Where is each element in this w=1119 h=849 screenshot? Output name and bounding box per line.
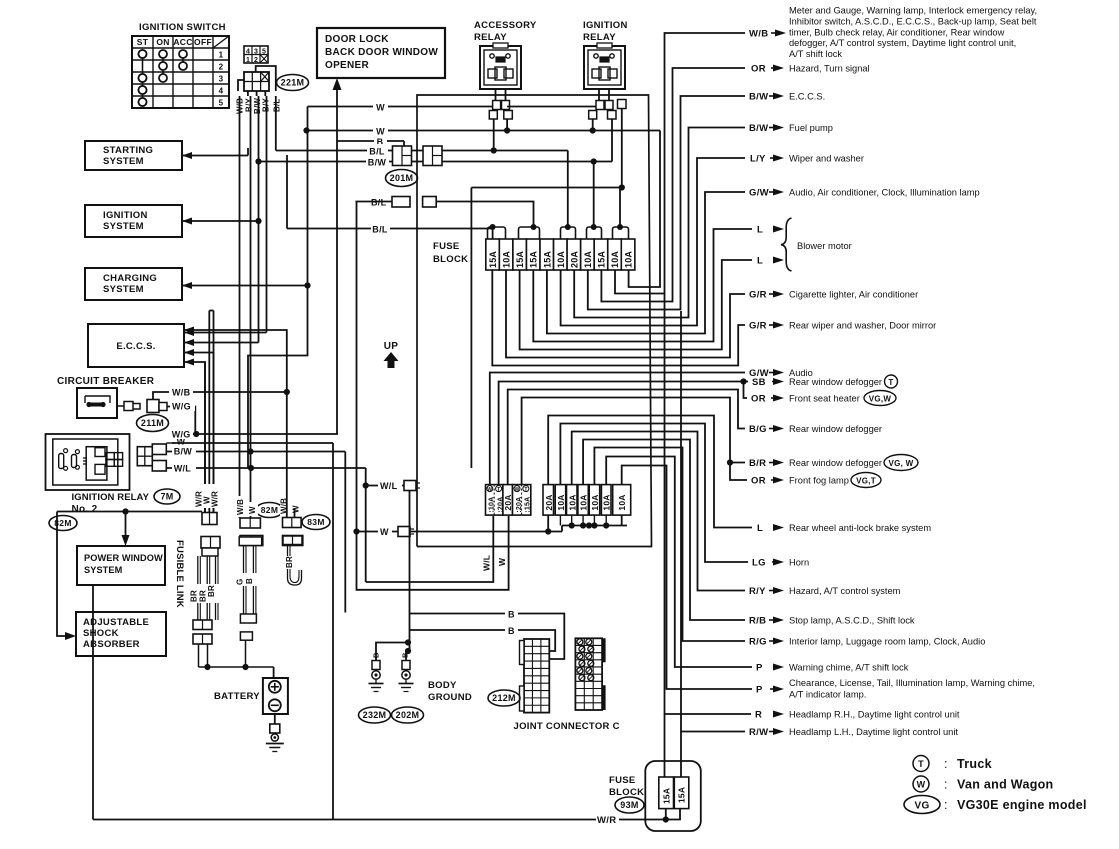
wire fuse9 to OR label xyxy=(601,68,745,302)
wire W/B main vertical xyxy=(239,96,241,518)
svg-text:OFF: OFF xyxy=(194,37,212,47)
svg-text:A/T shift lock: A/T shift lock xyxy=(789,49,842,59)
svg-text:15A: 15A xyxy=(677,787,687,803)
svg-text:15A: 15A xyxy=(529,251,539,268)
wire fuse4 to L blower1 label xyxy=(533,229,752,342)
svg-text:SHOCK: SHOCK xyxy=(83,628,119,639)
svg-text:RELAY: RELAY xyxy=(474,32,507,43)
83M cluster connector xyxy=(283,518,302,528)
wire W/G from breaker xyxy=(167,407,195,435)
fusible link BR hairpin xyxy=(283,536,302,545)
svg-text:SB: SB xyxy=(752,377,766,388)
wire B/W vertical xyxy=(258,96,260,343)
svg-text:W/R: W/R xyxy=(597,815,616,826)
svg-text:Headlamp L.H., Daytime light c: Headlamp L.H., Daytime light control uni… xyxy=(789,727,958,737)
wire row2 20A-2 to L rear wheel label xyxy=(548,416,752,528)
svg-text:15A: 15A xyxy=(488,251,498,268)
svg-text:Rear wiper and washer, Door mi: Rear wiper and washer, Door mirror xyxy=(789,321,936,331)
svg-text:201M: 201M xyxy=(390,173,414,183)
wire W/R vertical upper section xyxy=(213,311,215,353)
svg-text:5: 5 xyxy=(262,49,266,56)
fuse block outer boundary box xyxy=(417,95,652,547)
svg-text:4: 4 xyxy=(246,49,250,56)
svg-text:VG,W: VG,W xyxy=(869,395,892,404)
svg-text:20A: 20A xyxy=(503,494,513,510)
wire W 83M short xyxy=(294,508,296,518)
labels W/B W 83M xyxy=(280,494,291,516)
svg-text:R/W: R/W xyxy=(749,727,768,738)
wire W lower rail xyxy=(306,130,661,132)
wire drop to adjustable shock absorber xyxy=(57,512,71,637)
joint connector C grid 1 xyxy=(524,639,549,713)
svg-text:GROUND: GROUND xyxy=(428,692,472,703)
battery bus wire xyxy=(199,666,274,668)
fuse row2 bottom bus xyxy=(562,525,627,527)
svg-text:82M: 82M xyxy=(261,505,278,515)
svg-text:ON: ON xyxy=(156,37,169,47)
legend van and wagon xyxy=(913,776,929,792)
svg-text:10A: 10A xyxy=(579,494,589,510)
wire fuse7 to B/W fuel pump label xyxy=(574,128,745,318)
svg-text:L: L xyxy=(757,225,763,236)
svg-text:W/R: W/R xyxy=(211,491,220,507)
svg-text:POWER WINDOW: POWER WINDOW xyxy=(84,553,163,563)
wire eccs arrow 3 xyxy=(184,353,214,513)
door lock back door window opener box xyxy=(317,28,445,78)
ground riser wires xyxy=(376,643,408,661)
wire horizontal relay no2 bottom xyxy=(57,511,202,513)
svg-text:FUSE: FUSE xyxy=(433,241,460,252)
svg-text:W/B: W/B xyxy=(749,29,768,40)
wire power window to W/R xyxy=(92,585,94,820)
W connector small box xyxy=(357,531,399,533)
svg-text:UP: UP xyxy=(384,341,399,352)
wire fuse2 to G/R cigarette label xyxy=(506,270,745,358)
83M lower connector xyxy=(283,536,303,546)
232M ellipse xyxy=(359,707,391,723)
wire B/L 201M left segment xyxy=(356,201,393,203)
svg-text::: : xyxy=(944,778,948,792)
power window system box xyxy=(77,546,165,585)
wire eccs arrow 1 xyxy=(184,332,267,334)
junction dot W rails xyxy=(303,127,309,133)
wire R from 93M xyxy=(664,714,666,777)
svg-text:212M: 212M xyxy=(492,693,516,703)
svg-text:W: W xyxy=(376,103,385,113)
joint connector C grid 2 xyxy=(575,638,602,710)
svg-text:DOOR LOCK: DOOR LOCK xyxy=(325,34,389,45)
circuit breaker box xyxy=(77,388,117,418)
svg-text:B/W: B/W xyxy=(749,92,768,103)
fusible link bundle 2 xyxy=(239,537,262,546)
svg-text:BACK DOOR WINDOW: BACK DOOR WINDOW xyxy=(325,47,438,58)
211M ellipse xyxy=(137,415,169,432)
stem cap8 xyxy=(593,162,595,228)
svg-text:Front fog lamp: Front fog lamp xyxy=(789,476,849,486)
starting system box xyxy=(85,141,182,170)
201M ellipse xyxy=(386,170,418,187)
svg-text:Wiper and washer: Wiper and washer xyxy=(789,154,864,164)
wire fuse1 to G/R rear wiper label xyxy=(492,270,745,366)
svg-text:CIRCUIT BREAKER: CIRCUIT BREAKER xyxy=(57,376,155,387)
wire from W/L box down to grounds xyxy=(409,491,411,652)
svg-text:OR: OR xyxy=(751,394,766,405)
wire B/Y vertical 2 xyxy=(266,96,268,333)
circuit breaker element xyxy=(85,396,110,403)
wire W/L riser drop to connector xyxy=(365,468,367,582)
svg-text:5: 5 xyxy=(219,99,224,108)
wire row2 10A-5 to P warning chime label xyxy=(606,457,752,668)
svg-text:IGNITION RELAY: IGNITION RELAY xyxy=(72,492,150,503)
svg-text:20A: 20A xyxy=(544,494,554,510)
svg-text:A/T indicator lamp.: A/T indicator lamp. xyxy=(789,690,866,700)
wire B/L lowest to fuse cap 1-2 xyxy=(287,228,493,230)
212M ellipse xyxy=(488,690,520,706)
labels W/B W cluster2 xyxy=(236,496,247,517)
svg-text:JOINT CONNECTOR C: JOINT CONNECTOR C xyxy=(514,721,620,732)
accessory relay pin drop to B/L xyxy=(493,119,495,151)
svg-text:BODY: BODY xyxy=(428,680,457,691)
svg-text:VG,T: VG,T xyxy=(856,477,876,486)
svg-text:Fuel pump: Fuel pump xyxy=(789,123,833,133)
svg-text:82M: 82M xyxy=(54,518,71,528)
wire row2 10A-1 to LG label xyxy=(560,424,748,563)
wire fuse3 to L blower2 label xyxy=(520,260,752,350)
svg-text:L: L xyxy=(757,256,763,267)
svg-text:W: W xyxy=(380,527,389,537)
fuse block row 1 fuses xyxy=(486,239,500,270)
wire W/G lower xyxy=(172,433,338,435)
svg-text:10A: 10A xyxy=(567,494,577,510)
switch contacts ST column xyxy=(139,50,147,58)
svg-text:Hazard, A/T control system: Hazard, A/T control system xyxy=(789,586,901,596)
wire B/L through fuse box to fuse cap 6-7 xyxy=(442,150,568,152)
svg-text:B/R: B/R xyxy=(749,458,766,469)
svg-text:10A: 10A xyxy=(583,251,593,268)
svg-text:BR: BR xyxy=(285,556,294,568)
svg-text:BLOCK: BLOCK xyxy=(433,254,468,265)
connector bottom pin stubs xyxy=(247,91,249,96)
wire B into connector xyxy=(403,141,405,146)
svg-text:OPENER: OPENER xyxy=(325,60,370,71)
svg-text:P: P xyxy=(756,663,763,674)
ignition switch table xyxy=(132,36,229,108)
svg-text:Blower motor: Blower motor xyxy=(797,241,852,251)
svg-text:15A: 15A xyxy=(662,788,672,804)
svg-text:ABSORBER: ABSORBER xyxy=(83,639,140,650)
svg-text:W: W xyxy=(515,487,520,493)
wire B/Y vertical 1 xyxy=(250,96,252,518)
table diagonal xyxy=(213,36,229,48)
svg-text:No. 2: No. 2 xyxy=(72,504,98,515)
wire drop to power window xyxy=(125,512,127,542)
svg-text:15A: 15A xyxy=(542,251,552,268)
7M ellipse xyxy=(154,489,180,504)
accessory relay pin connectors xyxy=(493,101,501,110)
wire B/L to fuse cap 3-4 xyxy=(436,202,533,228)
svg-text:B/L: B/L xyxy=(273,99,282,113)
battery box xyxy=(263,678,288,714)
connector pair B/L 201M xyxy=(392,197,410,208)
wire B/W from cluster xyxy=(166,451,345,453)
svg-text:ACCESSORY: ACCESSORY xyxy=(474,20,537,31)
svg-text:Stop lamp, A.S.C.D., Shift loc: Stop lamp, A.S.C.D., Shift lock xyxy=(789,616,915,626)
svg-text:B/G: B/G xyxy=(749,424,767,435)
svg-text:W/L: W/L xyxy=(380,481,398,491)
stem cap 10-11 xyxy=(619,188,621,228)
svg-text::: : xyxy=(944,757,948,771)
wire W drop from B/L via W connector xyxy=(357,202,509,590)
svg-text:SYSTEM: SYSTEM xyxy=(103,156,144,167)
svg-text:T: T xyxy=(888,378,893,387)
svg-text:W/G: W/G xyxy=(172,430,191,440)
battery ground wire xyxy=(274,714,276,724)
svg-text:93M: 93M xyxy=(620,800,638,810)
svg-text:SYSTEM: SYSTEM xyxy=(84,565,123,575)
wire B/L riser at left xyxy=(286,155,288,229)
junction dot B/W stem fuse cap 8 xyxy=(591,158,597,164)
93M fuse bottom connections xyxy=(665,809,667,820)
svg-text:15A: 15A xyxy=(515,251,525,268)
ignition relay pin stubs xyxy=(598,89,600,101)
wire fuse6 to L/Y label xyxy=(561,158,745,326)
svg-text:B/W: B/W xyxy=(174,447,193,457)
svg-text:Van and Wagon: Van and Wagon xyxy=(957,778,1054,792)
wire row2 10A-2 to R/Y label xyxy=(572,432,745,591)
svg-text:E.C.C.S.: E.C.C.S. xyxy=(789,92,825,102)
stem cap 1-2 xyxy=(492,229,494,240)
svg-text:211M: 211M xyxy=(141,418,164,428)
wire fuse10 to W/B label xyxy=(615,33,745,294)
svg-text:ACC: ACC xyxy=(173,37,192,47)
svg-text:Rear window defogger: Rear window defogger xyxy=(789,458,882,468)
ignition system box xyxy=(85,205,182,237)
wire B riser into door lock opener with arrow xyxy=(336,82,338,141)
wire R/W vertical continuation xyxy=(681,311,745,732)
stem to cap 6-7 xyxy=(567,151,569,228)
82M cluster 2 connector xyxy=(240,518,260,528)
svg-text:B/L: B/L xyxy=(371,198,387,208)
legend truck xyxy=(913,756,929,772)
svg-text:STARTING: STARTING xyxy=(103,145,153,156)
svg-text:IGNITION: IGNITION xyxy=(103,210,148,221)
svg-text:W/G: W/G xyxy=(172,402,191,412)
svg-text::20A: :20A xyxy=(516,497,523,513)
wire W/B 83M riser to eccs xyxy=(184,330,287,518)
svg-text:timer, Bulb check relay, Air c: timer, Bulb check relay, Air conditioner… xyxy=(789,27,1005,37)
switch contacts ACC column xyxy=(182,54,184,66)
wire B lower to joint connector xyxy=(410,630,556,651)
svg-text:10A: 10A xyxy=(590,494,600,510)
wire fuse11 to W rail xyxy=(629,131,660,288)
grid 2 black edge bands xyxy=(602,638,606,662)
svg-text:G/R: G/R xyxy=(749,321,767,332)
battery ground symbol xyxy=(266,743,284,745)
fuse row2 20A drop xyxy=(547,515,549,531)
ignition relay pin drop to W rail xyxy=(592,119,594,131)
wire row2 10A-4 to R/G label xyxy=(594,448,745,642)
bundle2 lower connectors xyxy=(240,614,256,623)
charging system box xyxy=(85,268,182,300)
svg-text:10A: 10A xyxy=(502,251,512,268)
wire fuse8 to B/W eccs label xyxy=(588,96,745,310)
svg-text:VG: VG xyxy=(914,801,929,812)
svg-text:Truck: Truck xyxy=(957,757,992,771)
svg-text:T: T xyxy=(524,487,527,493)
svg-text:W/B: W/B xyxy=(236,499,245,515)
ignition relay outer pin drop xyxy=(621,109,623,188)
battery feed wires xyxy=(198,644,200,667)
ignition switch connector 221M xyxy=(244,72,269,91)
svg-text:10A: 10A xyxy=(617,494,627,510)
svg-text:10A: 10A xyxy=(624,251,634,268)
svg-text:B/W: B/W xyxy=(368,158,387,168)
svg-text:ST: ST xyxy=(137,37,149,47)
svg-text:L: L xyxy=(757,523,763,534)
fuse row1 connector caps xyxy=(488,227,506,239)
svg-text:Interior lamp, Luggage room la: Interior lamp, Luggage room lamp, Clock,… xyxy=(789,637,985,647)
wire W/L from cluster xyxy=(166,467,365,469)
wire row2 fuse3 to B/R label xyxy=(522,398,745,485)
svg-text:7M: 7M xyxy=(160,492,173,502)
wire W/G riser to B wire xyxy=(336,141,338,434)
wire W riser from door-lock junction xyxy=(248,107,308,469)
wire W label xyxy=(166,442,174,444)
wire row2 bus from W connector xyxy=(410,531,562,533)
switch contacts ON column xyxy=(162,54,164,78)
fusible link bundle 1 xyxy=(202,548,218,556)
svg-text:Rear window defogger: Rear window defogger xyxy=(789,424,882,434)
202M ellipse xyxy=(392,707,424,723)
blower motor brace xyxy=(781,218,792,271)
wire into starting system xyxy=(182,155,248,157)
wire into ignition system xyxy=(182,220,259,222)
svg-text:10A: 10A xyxy=(610,251,620,268)
wire B/W riser to ignition relay pin xyxy=(611,119,613,162)
connector pin-number box 4 3 5 / 1 2 X xyxy=(244,46,268,63)
svg-text:LG: LG xyxy=(752,558,766,569)
svg-text:232M: 232M xyxy=(363,710,387,720)
wire W rail stub label gap cover xyxy=(373,100,388,112)
wire B/L vertical from connector xyxy=(275,96,277,151)
svg-text:W: W xyxy=(292,505,301,513)
svg-text:SYSTEM: SYSTEM xyxy=(103,221,144,232)
wire B/L upper xyxy=(276,150,423,152)
svg-text:R/Y: R/Y xyxy=(749,586,766,597)
221M ellipse xyxy=(277,75,309,91)
svg-text:Headlamp R.H., Daytime light c: Headlamp R.H., Daytime light control uni… xyxy=(789,710,960,720)
svg-text:T: T xyxy=(918,759,924,769)
ignition relay no2 outer box xyxy=(46,434,130,490)
wire R vertical continuation xyxy=(665,294,752,715)
wire row2 10A-3 to R/B label xyxy=(583,440,745,621)
82M cluster 1 connector xyxy=(202,513,217,525)
svg-text:Chearance, License, Tail, Illu: Chearance, License, Tail, Illumination l… xyxy=(789,678,1035,688)
93M fuse left 15A xyxy=(659,777,674,809)
wire W drop from cluster xyxy=(332,443,334,820)
svg-text:OR: OR xyxy=(751,476,766,487)
svg-text::: : xyxy=(944,798,948,812)
wire row2 20A to B/G label xyxy=(508,390,745,485)
wire W middle vertical xyxy=(208,311,210,513)
svg-text:221M: 221M xyxy=(281,78,305,88)
svg-text:Rear window defogger: Rear window defogger xyxy=(789,377,882,387)
riser W/L left xyxy=(470,188,472,469)
svg-text:Warning chime, A/T shift lock: Warning chime, A/T shift lock xyxy=(789,663,909,673)
connector pair B/L B/W left of fuse block xyxy=(393,146,412,166)
svg-text:3: 3 xyxy=(219,75,224,84)
relay no2 internals xyxy=(59,454,64,469)
relay no2 connector cluster xyxy=(137,447,152,466)
svg-text:FUSE: FUSE xyxy=(609,775,636,786)
svg-text:2: 2 xyxy=(219,63,224,72)
svg-text:4: 4 xyxy=(219,87,224,96)
svg-text:R/B: R/B xyxy=(749,616,766,627)
svg-text:1: 1 xyxy=(246,57,250,64)
svg-text:Hazard, Turn signal: Hazard, Turn signal xyxy=(789,64,870,74)
svg-text:CHARGING: CHARGING xyxy=(103,273,157,284)
svg-text:OR: OR xyxy=(751,64,766,75)
svg-text:202M: 202M xyxy=(396,710,420,720)
fusible link cluster 1 lower connector xyxy=(201,537,220,549)
grid 2 terminal circles xyxy=(577,639,583,645)
svg-text:VG30E engine model: VG30E engine model xyxy=(957,798,1087,812)
93M fuse right 15A xyxy=(674,777,689,809)
svg-text:ADJUSTABLE: ADJUSTABLE xyxy=(83,617,149,628)
ignition relay pin connectors xyxy=(596,101,604,110)
svg-text:G/W: G/W xyxy=(749,188,769,199)
accessory relay pin stubs xyxy=(495,89,497,101)
junction dot B/W at connector riser xyxy=(255,158,261,164)
svg-text:10A: 10A xyxy=(556,251,566,268)
wire from ign relay pin to W/L riser xyxy=(471,187,621,189)
svg-text:10A: 10A xyxy=(556,494,566,510)
wire B/W upper xyxy=(257,161,423,163)
svg-text:Horn: Horn xyxy=(789,558,809,568)
wire row2 10A-6 to P clearance label xyxy=(622,466,752,690)
svg-text:FUSIBLE LINK: FUSIBLE LINK xyxy=(174,540,185,608)
connector top stub to B/L xyxy=(256,66,276,91)
accessory relay pin drop to W rail xyxy=(506,119,508,131)
svg-text:W: W xyxy=(917,780,926,790)
wire B/W drop to B wire junction xyxy=(344,452,346,613)
svg-text:IGNITION: IGNITION xyxy=(583,20,628,31)
wire B/R branch to OR front fog lamp xyxy=(730,463,747,481)
svg-text:P: P xyxy=(756,685,763,696)
svg-text:2: 2 xyxy=(254,57,258,64)
svg-text:defogger, A/T control system,: defogger, A/T control system, Daytime li… xyxy=(789,38,1016,48)
labels W/R W W/R xyxy=(198,484,220,508)
svg-text:10A: 10A xyxy=(602,494,612,510)
up arrow symbol xyxy=(384,352,399,368)
accessory relay xyxy=(480,46,521,89)
fuse block 93M box xyxy=(645,761,701,831)
svg-text:IGNITION SWITCH: IGNITION SWITCH xyxy=(139,22,226,33)
bridge at top of W/R pair xyxy=(209,310,213,312)
adjustable shock absorber box xyxy=(76,612,166,656)
ignition relay xyxy=(584,46,625,89)
svg-text:W: W xyxy=(487,487,492,493)
svg-text:B/W: B/W xyxy=(749,123,768,134)
wire eccs arrow 4 xyxy=(184,362,205,512)
svg-text:3: 3 xyxy=(254,49,258,56)
circuit breaker output connectors xyxy=(117,405,124,407)
svg-text:BR: BR xyxy=(190,590,199,602)
battery minus terminal xyxy=(269,699,281,711)
wire fuse5 to G/W label xyxy=(547,192,745,334)
svg-text:B: B xyxy=(508,610,515,620)
svg-text:W/L: W/L xyxy=(482,555,492,571)
